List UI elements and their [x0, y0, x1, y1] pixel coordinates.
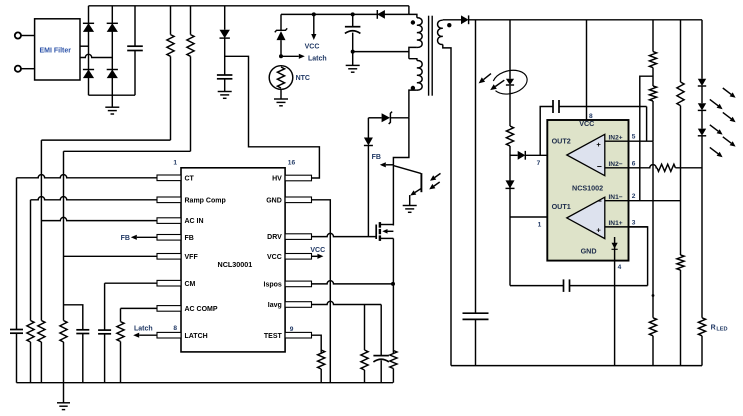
wire AC IN: [41, 217, 157, 220]
ground (Q1 emitter): [403, 206, 417, 213]
LED D15: [698, 103, 706, 128]
sense resistor R7: [390, 351, 397, 383]
node aux dot: [411, 86, 415, 90]
NTC thermistor RT1: [269, 66, 310, 90]
diode D12 (to OUT2): [510, 151, 547, 160]
svg-text:3: 3: [632, 219, 636, 226]
svg-text:1: 1: [173, 159, 177, 166]
pin VFF (left): [157, 254, 198, 261]
resistor R17 (A bottom): [649, 318, 656, 366]
pin GND (right): [266, 197, 311, 204]
transformer T1 core: [429, 16, 433, 96]
VCC net arrow (pin): [310, 247, 325, 259]
svg-text:EMI Filter: EMI Filter: [40, 48, 72, 55]
svg-text:Latch: Latch: [308, 55, 327, 62]
node clamp junction: [351, 12, 355, 16]
bulk top rail: [89, 5, 409, 7]
pin HV (right): [272, 175, 311, 182]
pin CM (left): [157, 280, 196, 287]
capacitor C9 (comp): [564, 279, 648, 292]
FB net arrow (near opto): [372, 154, 394, 168]
wire Ispos (hops over GND wire): [312, 281, 394, 284]
bridge diode D3: [83, 70, 94, 79]
svg-text:CT: CT: [185, 175, 195, 182]
wire compensation line OUT1: [510, 285, 564, 287]
EMI Filter block: [35, 19, 80, 80]
resistor R20 (IN2- sense): [657, 164, 702, 171]
bridge diode D4: [107, 70, 118, 79]
svg-text:Ramp Comp: Ramp Comp: [185, 197, 226, 204]
wire AC COMP: [121, 307, 158, 309]
bridge diode D1: [83, 23, 94, 32]
pin LATCH (left): [157, 332, 208, 339]
svg-text:16: 16: [288, 159, 296, 166]
ground (main): [57, 383, 70, 410]
svg-text:NTC: NTC: [296, 75, 310, 82]
GND pin wire + substrate diode: [612, 237, 618, 366]
wire GND pin down: [312, 200, 331, 383]
svg-text:FB: FB: [372, 154, 381, 161]
svg-text:AC IN: AC IN: [185, 218, 204, 225]
resistor R16 (lower A): [649, 86, 656, 141]
svg-text:GND: GND: [581, 246, 597, 255]
svg-text:Latch: Latch: [134, 326, 153, 333]
wire column D (VFF): [63, 151, 65, 320]
pin DRV (right): [267, 234, 311, 241]
resistor R11 (AC COMP): [117, 308, 124, 382]
svg-text:LED: LED: [716, 326, 727, 332]
wire R1 to AC IN column: [41, 139, 170, 141]
wire MOSFET source down: [392, 238, 394, 353]
capacitor C4 (CT): [10, 330, 23, 383]
pin CT (left): [157, 175, 195, 182]
svg-text:NCL30001: NCL30001: [218, 260, 253, 269]
svg-text:IN2−: IN2−: [608, 161, 622, 168]
VCC net arrow (down): [305, 14, 320, 50]
svg-text:Ispos: Ispos: [264, 282, 282, 289]
resistor R14 (opto): [506, 126, 513, 217]
capacitor C10 (OUT2-IN2+): [540, 100, 646, 155]
wire column B (Ramp Comp): [30, 200, 32, 321]
pin IN1+ wire: [605, 219, 648, 227]
svg-text:4: 4: [618, 264, 622, 271]
ground (NTC): [274, 89, 288, 106]
ground rail (left): [17, 382, 394, 384]
svg-text:CM: CM: [185, 281, 196, 288]
pin IN1- wire: [605, 193, 681, 201]
svg-text:TEST: TEST: [264, 333, 283, 340]
divider resistor R15 (upper A): [649, 20, 656, 86]
wire DRV to gate: [312, 233, 377, 236]
svg-text:NCS1002: NCS1002: [572, 184, 603, 193]
output capacitor C8: [463, 20, 489, 366]
svg-text:−: −: [597, 196, 602, 206]
svg-text:AC COMP: AC COMP: [185, 306, 218, 313]
svg-text:OUT2: OUT2: [552, 137, 571, 146]
output top rail: [469, 19, 702, 21]
svg-text:FB: FB: [185, 235, 194, 242]
wire column C (AC IN): [40, 140, 42, 320]
gate diode D9: [364, 118, 373, 237]
svg-text:VCC: VCC: [579, 119, 594, 128]
node junction (A column): [652, 294, 655, 297]
resistor R9 (AC IN): [38, 321, 45, 383]
output bottom rail: [451, 365, 702, 367]
wire Iavg (hops over GND wire): [312, 301, 382, 304]
zener diode D7: [275, 14, 287, 56]
node Ispos junction: [391, 282, 395, 286]
svg-text:VFF: VFF: [185, 254, 199, 261]
wire EMI to bridge node A: [80, 45, 89, 47]
wire clamp to primary: [353, 51, 409, 53]
wire VFF: [64, 255, 158, 257]
svg-text:VCC: VCC: [305, 44, 320, 51]
divider resistor R18 (upper B): [677, 20, 684, 255]
transformer T1 secondary winding: [438, 20, 451, 366]
output rectifier D10: [443, 15, 469, 24]
light arrows from LEDs: [710, 88, 736, 157]
op-amp U2 NCS1002 box: [547, 119, 628, 261]
LED D16: [698, 129, 706, 318]
resistor R10 (VFF): [60, 321, 67, 383]
wire VCC (pin 8): [586, 20, 588, 120]
op-amp controller U1 NCL30001 box: [181, 168, 285, 352]
gate zener D8: [368, 112, 409, 124]
svg-text:6: 6: [632, 160, 636, 167]
bulk capacitor C1: [127, 6, 143, 95]
svg-text:+: +: [596, 140, 601, 149]
diode D13 (opto chain): [506, 180, 515, 188]
light arrows from D11: [479, 74, 505, 91]
svg-text:−: −: [597, 161, 602, 171]
svg-text:IN1−: IN1−: [608, 194, 622, 201]
ground (bridge): [105, 95, 119, 114]
svg-text:+: +: [596, 225, 601, 234]
divider resistor R2: [187, 6, 194, 152]
wire aux to FB node: [393, 118, 409, 226]
pin IN2- wire (hops over divider): [605, 160, 657, 168]
svg-text:1: 1: [538, 222, 542, 229]
FB net arrow (left): [121, 235, 157, 243]
startup diode D5: [220, 6, 230, 38]
bridge diode D2: [107, 23, 118, 32]
op-amp A1 (bottom): [552, 196, 605, 238]
capacitor C7 (Iavg filter): [373, 305, 389, 383]
MOSFET Q2: [376, 222, 393, 241]
resistor R19 (lower B): [677, 255, 684, 366]
wire R2 to VFF column: [64, 150, 191, 152]
op-amp A2 (top): [552, 134, 605, 175]
pin IN2+ wire: [605, 134, 653, 142]
wire CM: [105, 282, 157, 284]
wire EMI to bridge node B (hops over left leg): [80, 54, 112, 57]
svg-text:DRV: DRV: [267, 234, 282, 241]
svg-text:FB: FB: [121, 235, 130, 242]
ground (C2): [218, 92, 232, 99]
resistor R8 (Ramp Comp): [27, 321, 34, 383]
clamp diode D6 (cathode left): [377, 10, 385, 19]
svg-text:R: R: [711, 325, 716, 332]
wire Ramp Comp: [31, 197, 158, 200]
VCC rail: [281, 13, 409, 15]
svg-text:HV: HV: [272, 176, 282, 183]
svg-text:GND: GND: [266, 197, 282, 204]
bridge right leg wire: [111, 6, 113, 95]
node primary dot: [411, 20, 415, 24]
resistor R12 (Iavg filter): [361, 305, 368, 383]
light arrows into Q1: [429, 173, 440, 189]
divider resistor R1: [167, 6, 174, 140]
svg-text:VCC: VCC: [267, 254, 282, 261]
svg-text:5: 5: [632, 134, 636, 141]
clamp capacitor C3: [345, 14, 361, 51]
pin Ispos (right): [264, 281, 312, 288]
wire column A (CT): [16, 178, 18, 330]
svg-text:8: 8: [589, 113, 593, 120]
svg-text:7: 7: [537, 160, 541, 167]
svg-text:2: 2: [632, 193, 636, 200]
optocoupler phototransistor Q1: [393, 166, 421, 206]
transformer T1 primary winding: [409, 6, 422, 59]
node VCC junction: [312, 12, 316, 16]
wire HV net: [225, 56, 320, 178]
pin AC IN (left): [157, 218, 204, 225]
resistor R LED: [698, 318, 727, 366]
bridge left leg wire: [88, 6, 90, 95]
node clamp bottom junction: [351, 50, 355, 54]
svg-text:OUT1: OUT1: [552, 202, 571, 211]
wire CT (hops over two verticals): [17, 175, 158, 178]
capacitor C2: [217, 37, 233, 91]
pin AC COMP (left): [157, 306, 218, 313]
resistor R13 (TEST): [312, 335, 325, 383]
wire divider mid tap: [640, 76, 653, 201]
transformer T1 aux winding: [409, 59, 422, 118]
ground (clamp): [346, 52, 360, 73]
svg-text:8: 8: [173, 325, 177, 332]
node secondary dot: [447, 23, 451, 27]
svg-text:IN1+: IN1+: [608, 220, 622, 227]
svg-text:9: 9: [290, 326, 294, 333]
pin Iavg (right): [268, 302, 312, 309]
pin Ramp Comp (left): [157, 197, 226, 204]
svg-text:LATCH: LATCH: [185, 333, 208, 340]
wire opto chain down: [509, 217, 511, 286]
node zener/NTC junction: [279, 54, 283, 58]
svg-text:IN2+: IN2+: [608, 134, 622, 141]
wire comp to IN1+: [629, 227, 648, 286]
svg-text:Iavg: Iavg: [268, 302, 282, 309]
capacitor C6 (CM): [98, 283, 111, 383]
pin FB (left): [157, 235, 194, 242]
bridge bottom rail: [89, 94, 136, 96]
wire LED string top: [701, 20, 703, 79]
Latch net arrow (top): [281, 54, 327, 63]
input terminal J1: [15, 32, 35, 38]
pin TEST (right): [264, 332, 312, 339]
wire A column down: [652, 141, 654, 318]
capacitor C5 (VFF branch): [64, 305, 90, 383]
svg-text:VCC: VCC: [310, 247, 325, 254]
LED D14: [698, 79, 706, 103]
Latch net arrow (left): [133, 326, 157, 338]
wire OUT1 to opto chain: [510, 216, 547, 218]
input terminal J2: [15, 66, 35, 72]
pin VCC (right): [267, 254, 311, 261]
optocoupler LED D11: [493, 20, 527, 126]
